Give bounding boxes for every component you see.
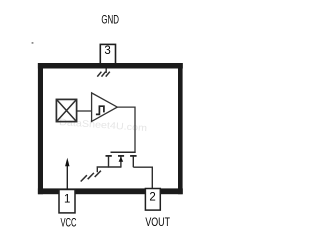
ground (GND pin hatches) <box>97 72 110 77</box>
ground (GND pin stub, inside top) <box>105 68 107 73</box>
drain stem <box>132 156 134 167</box>
source stem <box>108 156 110 167</box>
svg-text:VOUT: VOUT <box>145 217 170 229</box>
ground (source, chassis hatches) <box>81 171 101 182</box>
svg-text:2: 2 <box>149 191 155 203</box>
IC package outline (thick border) <box>38 63 183 194</box>
channel segment (drain) <box>130 155 137 157</box>
body stem <box>120 157 122 168</box>
wire: hall output to comparator input <box>77 110 91 112</box>
body arrow (points up) <box>119 157 124 162</box>
stray dot <box>32 42 34 44</box>
svg-text:3: 3 <box>104 45 110 57</box>
svg-text:1: 1 <box>64 194 70 206</box>
pin 1 box <box>59 190 75 213</box>
channel segment (body) <box>118 155 124 157</box>
hall element X1 (crossed square) <box>56 99 76 121</box>
pin 2 box <box>145 189 160 211</box>
wire: drain to VOUT pin <box>133 167 152 189</box>
channel segment (source) <box>106 155 112 157</box>
VCC supply arrow <box>66 166 68 189</box>
svg-text:VCC: VCC <box>61 218 77 230</box>
pin 3 box <box>100 44 115 65</box>
hysteresis symbol <box>96 106 104 114</box>
wire: comparator output to MOSFET gate <box>117 107 135 151</box>
wire: source/body to ground <box>97 167 121 172</box>
gate plate <box>111 151 136 153</box>
transistor Q1 (N-channel MOSFET) <box>106 152 137 167</box>
svg-text:GND: GND <box>101 14 119 26</box>
op-amp U1 (Schmitt comparator triangle) <box>92 93 118 122</box>
